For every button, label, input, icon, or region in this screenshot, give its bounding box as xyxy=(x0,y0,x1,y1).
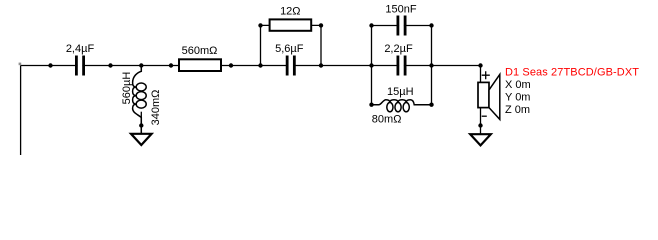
svg-text:Y 0m: Y 0m xyxy=(505,91,530,103)
node dots C1 pins xyxy=(48,63,52,67)
svg-text:D1 Seas 27TBCD/GB-DXT: D1 Seas 27TBCD/GB-DXT xyxy=(505,66,639,78)
svg-text:560µH: 560µH xyxy=(121,72,133,105)
inductor L1 560uH coil xyxy=(133,66,142,134)
wire branch L3 parallel bottom left xyxy=(371,66,373,105)
node dots R2 pins xyxy=(258,23,262,27)
svg-text:340mΩ: 340mΩ xyxy=(150,90,162,126)
svg-text:80mΩ: 80mΩ xyxy=(372,113,402,125)
svg-text:560mΩ: 560mΩ xyxy=(182,45,218,57)
wire L1 shunt branch lower xyxy=(140,112,142,134)
svg-text:150nF: 150nF xyxy=(385,3,416,15)
svg-text:12Ω: 12Ω xyxy=(280,6,300,18)
node dots R1 pins xyxy=(169,63,173,67)
wire branch R2 parallel top xyxy=(261,25,322,65)
terminal port (cropped) xyxy=(19,63,22,66)
speaker cone xyxy=(489,74,500,119)
wire branch C4 parallel top xyxy=(372,26,432,66)
resistor R1 560mOhm xyxy=(179,59,221,71)
wire speaker branch vertical xyxy=(480,66,482,135)
node L1 bottom pin xyxy=(139,123,143,127)
node dots speaker pins xyxy=(478,63,482,67)
capacitor C5 2.2uF xyxy=(397,56,400,76)
wire main segment 4 xyxy=(404,65,481,67)
speaker driver rect xyxy=(478,82,489,107)
speaker plus xyxy=(482,71,490,79)
wire branch L3 parallel bottom right xyxy=(431,66,433,105)
speaker minus xyxy=(482,115,487,117)
wire main segment 1 xyxy=(21,65,78,67)
svg-text:2,4µF: 2,4µF xyxy=(66,43,95,55)
node dots L3 pins xyxy=(369,103,373,107)
ground under speaker xyxy=(470,134,491,145)
svg-text:Z 0m: Z 0m xyxy=(505,104,530,116)
wire main segment 3 xyxy=(293,65,399,67)
capacitor C4 150nF xyxy=(397,16,400,36)
svg-text:2,2µF: 2,2µF xyxy=(384,43,413,55)
svg-text:5,6µF: 5,6µF xyxy=(275,43,304,55)
node dots C5 pins / block2 nodes xyxy=(369,63,373,67)
node L1 top junction xyxy=(139,63,143,67)
wire main segment 2 xyxy=(82,65,288,67)
capacitor C1 2.4uF xyxy=(75,56,78,76)
svg-text:X 0m: X 0m xyxy=(505,79,531,91)
ground under L1 xyxy=(131,134,152,145)
inductor L3 15uH coil xyxy=(372,100,432,105)
svg-text:15µH: 15µH xyxy=(387,86,414,98)
capacitor C3 5.6uF xyxy=(286,56,289,76)
wire xyxy=(21,25,481,155)
node dots C4 pins xyxy=(369,23,373,27)
wire left vertical input xyxy=(20,66,22,156)
node dots C3 pins xyxy=(258,63,262,67)
resistor R2 12Ohm xyxy=(270,19,312,30)
